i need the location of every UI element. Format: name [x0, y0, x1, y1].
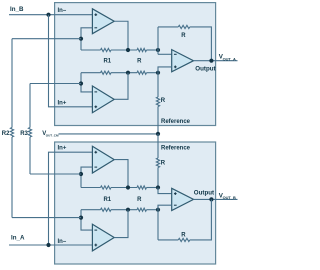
wire B1 output down to rail2b — [114, 160, 128, 188]
A3 minus marker — [174, 53, 177, 55]
svg-text:In+: In+ — [58, 100, 67, 106]
svg-text:In–: In– — [58, 8, 67, 14]
op-amp A2 (lower buffer, amp A) — [92, 86, 114, 113]
svg-text:R1: R1 — [103, 197, 111, 203]
wire reference pin amp A — [157, 107, 159, 134]
svg-text:Reference: Reference — [161, 119, 191, 125]
wire R2 to B2 minus node — [12, 217, 81, 219]
wire B3 feedback left — [158, 239, 178, 241]
A1 minus marker — [94, 27, 97, 29]
node In_A label — [11, 235, 25, 242]
svg-text:R: R — [161, 98, 166, 104]
wire rail2 right segment — [147, 72, 159, 74]
wire B1 feedback to rail2b — [81, 167, 92, 187]
wire R3 top lead — [29, 84, 31, 128]
wire R2 bottom lead — [11, 137, 13, 218]
B3 plus marker — [174, 192, 177, 195]
label Reference (amp B) — [161, 146, 191, 152]
svg-text:OUT_B: OUT_B — [223, 195, 236, 200]
in-amp block B (bottom box) — [55, 142, 216, 264]
wire B3 minus riser — [157, 205, 159, 240]
junction In_A — [46, 243, 50, 247]
junction A2 minus node / R3 — [79, 81, 83, 85]
A2 minus marker — [94, 91, 97, 93]
pin label In- (amp A) — [58, 8, 67, 14]
wire R3 to A2 minus node — [30, 83, 81, 85]
resistor R (amp B feedback) — [178, 238, 190, 241]
wire reference pin amp B — [157, 134, 159, 158]
B3 minus marker — [174, 204, 177, 206]
wire V_OUT_CM — [59, 133, 159, 135]
label R2 — [2, 131, 10, 137]
wire A3 feedback right to output — [190, 27, 212, 61]
label R (amp A upper) — [137, 59, 142, 65]
node V_OUT_A label — [219, 54, 236, 62]
svg-text:In_A: In_A — [11, 235, 25, 242]
resistor R (amp A reference) — [156, 97, 159, 107]
svg-text:R: R — [181, 33, 186, 39]
resistor R1 (amp A upper) — [101, 48, 112, 51]
wire rail2b right segment — [147, 187, 159, 189]
wire B3 output to V_OUT_B — [193, 198, 237, 200]
wire A3 feedback left — [158, 26, 178, 28]
wire A2 output up to rail2 — [114, 73, 128, 100]
wire rail2 to reference resistor — [157, 73, 159, 97]
wire B3 minus jog — [158, 205, 172, 210]
resistor R (amp A upper) — [137, 48, 147, 51]
wire rail1 mid segment — [111, 49, 137, 51]
node In_B label — [10, 6, 24, 13]
junction A1 minus node / R2 — [79, 37, 83, 41]
resistor R (amp B upper) — [137, 186, 147, 189]
resistor R1 (amp B upper) — [101, 186, 112, 189]
label Output (amp A) — [195, 65, 215, 72]
pin label In+ (amp B) — [58, 146, 67, 152]
resistor R1 (amp B lower) — [101, 208, 112, 211]
wire R2 to A1 minus node — [12, 38, 81, 40]
wire In_A riser to In+ pin — [49, 152, 93, 245]
junction rail2 A2 output — [126, 71, 130, 75]
wire A2 feedback to rail2 — [81, 73, 92, 92]
svg-text:R: R — [161, 161, 166, 167]
junction rail2b B1 output — [126, 185, 130, 189]
op-amp A1 (top buffer, amp A) — [92, 9, 114, 34]
svg-text:In+: In+ — [58, 146, 67, 152]
svg-text:R1: R1 — [103, 59, 111, 65]
resistor R (amp B lower) — [137, 208, 147, 211]
svg-text:R2: R2 — [2, 131, 10, 137]
svg-text:R: R — [181, 232, 186, 238]
label Output (amp B) — [194, 189, 214, 196]
label R3 — [20, 131, 28, 137]
label R (amp A reference) — [161, 98, 166, 104]
in-amp block A (top box) — [55, 3, 216, 126]
wire rail2 left segment — [81, 72, 101, 74]
wire A3 output to V_OUT_A — [193, 60, 237, 62]
resistor R (amp B reference) — [156, 158, 159, 168]
junction B1 minus node / R3 — [79, 172, 83, 176]
svg-text:In_B: In_B — [10, 6, 24, 13]
label R (amp B feedback) — [181, 232, 186, 238]
wire B2 output up to rail1b — [114, 210, 128, 238]
wire R3 to B1 minus node — [30, 173, 81, 175]
A2 plus marker — [94, 105, 97, 108]
pin label In- (amp B) — [58, 239, 67, 245]
junction B3 output feedback — [209, 197, 213, 201]
wire rail1 right segment — [147, 49, 159, 51]
resistor R (amp A feedback) — [178, 25, 190, 28]
B1 plus marker — [94, 151, 97, 154]
wire rail2b mid segment — [111, 187, 137, 189]
label R (amp B reference) — [161, 161, 166, 167]
op-amp A3 (output stage, amp A) — [172, 50, 194, 72]
junction rail1b B2 output — [126, 208, 130, 212]
resistor R2 — [10, 128, 13, 138]
junction B2 minus node / R2 — [79, 216, 83, 220]
wire B3 plus jog — [158, 188, 172, 194]
junction rail1 A3 minus — [156, 48, 160, 52]
wire rail1 left segment — [81, 49, 101, 51]
svg-text:Output: Output — [195, 65, 215, 72]
node V_OUT_CM label — [42, 131, 59, 138]
resistor R1 (amp A lower) — [101, 71, 112, 74]
svg-text:OUT_A: OUT_A — [223, 56, 236, 61]
A1 plus marker — [94, 13, 97, 16]
resistor R3 — [28, 128, 31, 138]
wire rail1b mid segment — [111, 209, 137, 211]
resistor R (amp A lower) — [137, 71, 147, 74]
label Reference (amp A) — [161, 119, 191, 125]
B2 minus marker — [94, 229, 97, 231]
wire B2 feedback to rail1b — [81, 210, 92, 230]
wire A1 output down to rail1 — [114, 21, 128, 50]
label R (amp B upper) — [137, 197, 142, 203]
wire R3 bottom lead — [29, 137, 31, 174]
wire In_A to In- pin — [9, 244, 92, 246]
svg-text:In–: In– — [58, 239, 67, 245]
label R (amp A feedback) — [181, 33, 186, 39]
junction rail2b B3 plus — [156, 185, 160, 189]
op-amp B3 (output stage, amp B) — [172, 188, 194, 210]
junction V_OUT_CM reference tie — [156, 132, 160, 136]
wire In_B riser to In+ pin — [49, 15, 93, 107]
wire rail1b right segment — [147, 209, 159, 211]
wire A3 plus jog — [158, 67, 172, 73]
pin label In+ (amp A) — [58, 100, 67, 106]
junction In_B — [46, 13, 50, 17]
junction rail1 A1 output — [126, 48, 130, 52]
wire rail2b left segment — [81, 187, 101, 189]
wire reference resistor to rail2b — [157, 168, 159, 188]
junction A3 output feedback — [209, 59, 213, 63]
junction rail1b B3 minus — [156, 208, 160, 212]
op-amp B1 (top buffer, amp B) — [92, 146, 114, 173]
svg-text:Reference: Reference — [161, 146, 191, 152]
junction rail2 A3 plus — [156, 71, 160, 75]
wire rail2 mid segment — [111, 72, 137, 74]
wire rail1b left segment — [81, 209, 101, 211]
op-amp B2 (bottom buffer, amp B) — [92, 224, 114, 251]
svg-text:Output: Output — [194, 189, 214, 196]
svg-text:OUT_CM: OUT_CM — [46, 134, 59, 138]
wire A1 feedback to rail1 — [81, 28, 92, 50]
svg-text:R: R — [137, 197, 142, 203]
label R1 (amp A) — [103, 59, 111, 65]
wire In_B to In- pin — [9, 14, 92, 16]
label R1 (amp B) — [103, 197, 111, 203]
wire R2 top lead — [11, 39, 13, 128]
svg-text:R3: R3 — [20, 131, 28, 137]
B2 plus marker — [94, 244, 97, 247]
node V_OUT_B label — [219, 192, 236, 200]
wire B3 feedback right to output — [190, 199, 212, 240]
B1 minus marker — [94, 166, 97, 168]
A3 plus marker — [174, 66, 177, 69]
wire A3 minus riser — [157, 27, 159, 54]
svg-text:R: R — [137, 59, 142, 65]
wire A3 minus jog — [158, 53, 172, 55]
